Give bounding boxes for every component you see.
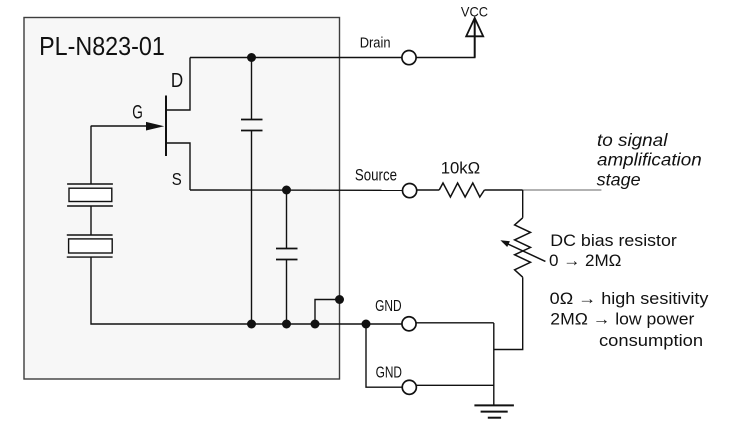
wire GND1 to ground bus xyxy=(416,322,494,324)
wire source rail xyxy=(190,189,403,191)
note DC bias resistor xyxy=(549,231,677,270)
svg-text:to signal: to signal xyxy=(597,130,669,150)
ground symbol xyxy=(474,405,514,417)
module box PL-N823-01 xyxy=(24,18,340,380)
terminal GND 1 xyxy=(402,317,416,331)
svg-text:2MΩ → low power: 2MΩ → low power xyxy=(550,310,694,329)
wire resistor to pot node xyxy=(484,189,522,191)
wire top rail (drain net) xyxy=(190,57,402,59)
svg-text:GND: GND xyxy=(376,364,402,381)
svg-text:GND: GND xyxy=(375,298,402,315)
svg-text:Drain: Drain xyxy=(360,36,391,52)
wire drain terminal to VCC xyxy=(416,57,475,59)
svg-text:stage: stage xyxy=(597,170,641,190)
svg-text:S: S xyxy=(172,169,182,189)
resistor R1 10k xyxy=(439,183,484,197)
svg-text:Source: Source xyxy=(355,165,397,184)
wire between piezo elements xyxy=(90,206,92,235)
svg-text:G: G xyxy=(132,102,143,123)
wire gate xyxy=(91,125,150,127)
piezo element X1 xyxy=(67,184,113,206)
svg-text:0Ω → high sesitivity: 0Ω → high sesitivity xyxy=(550,289,709,308)
node junction C2/bottom rail xyxy=(282,320,291,329)
svg-text:VCC: VCC xyxy=(461,3,488,19)
wire bottom rail to GND terminal 1 xyxy=(366,323,402,325)
terminal Drain xyxy=(402,51,416,65)
wire GND2 to ground bus xyxy=(416,384,493,386)
svg-text:D: D xyxy=(171,69,183,92)
wire piezo to bottom rail xyxy=(91,257,366,324)
node junction source/C2 xyxy=(282,186,291,195)
svg-text:10kΩ: 10kΩ xyxy=(441,158,481,177)
capacitor C1 xyxy=(241,58,263,325)
wire to amplifier stage (light) xyxy=(523,189,602,191)
capacitor C2 xyxy=(276,190,298,324)
piezo element X2 xyxy=(67,235,113,257)
potentiometer R2 lead top xyxy=(522,190,524,218)
wire step to box edge xyxy=(315,300,340,325)
node junction GND xyxy=(362,320,371,329)
wire junction down to GND terminal 2 xyxy=(366,324,402,387)
potentiometer R2 lead bottom xyxy=(494,277,523,349)
wire source terminal to resistor xyxy=(417,189,440,191)
potentiometer R2 zigzag xyxy=(515,218,531,277)
node junction C1/bottom rail xyxy=(247,320,256,329)
transistor Q1 gate arrowhead xyxy=(146,122,164,131)
transistor Q1 gate bar xyxy=(165,96,167,157)
wire gate to piezo stack xyxy=(90,126,92,184)
svg-text:DC bias resistor: DC bias resistor xyxy=(550,231,677,250)
power VCC symbol xyxy=(474,19,476,58)
node junction step/bottom rail xyxy=(311,320,320,329)
svg-text:PL-N823-01: PL-N823-01 xyxy=(39,31,165,61)
node junction drain/C1 xyxy=(247,53,256,62)
transistor Q1 drain lead xyxy=(166,58,190,111)
note sensitivity tradeoff xyxy=(550,289,709,350)
node junction at box edge xyxy=(335,295,344,304)
terminal Source xyxy=(403,184,417,198)
potentiometer R2 arrow xyxy=(500,240,545,261)
terminal GND 2 xyxy=(402,380,416,394)
svg-text:consumption: consumption xyxy=(599,331,703,350)
svg-text:0 → 2MΩ: 0 → 2MΩ xyxy=(549,251,621,270)
note to signal amplification stage xyxy=(597,130,702,190)
wire ground bus vertical xyxy=(493,323,495,405)
svg-text:amplification: amplification xyxy=(597,150,702,170)
transistor Q1 source lead xyxy=(166,143,190,190)
